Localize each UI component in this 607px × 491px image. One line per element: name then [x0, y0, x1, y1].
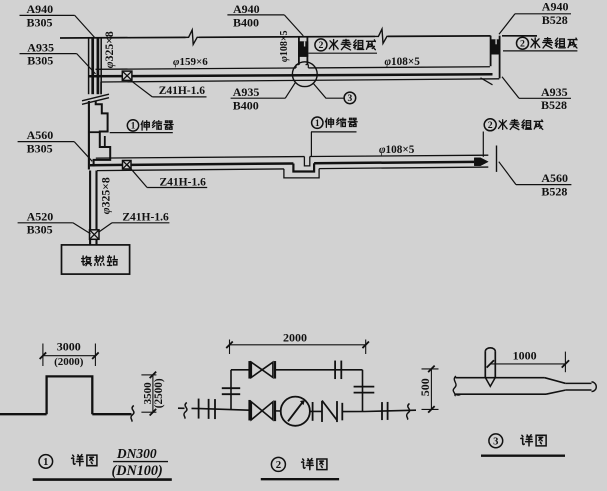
svg-text:3500: 3500 [142, 382, 154, 405]
svg-text:A940: A940 [27, 2, 54, 16]
svg-text:B305: B305 [27, 223, 53, 237]
svg-text:Z41H-1.6: Z41H-1.6 [159, 85, 206, 97]
svg-text:1: 1 [43, 457, 48, 468]
svg-text:B528: B528 [542, 13, 568, 27]
svg-text:A940: A940 [542, 0, 569, 14]
svg-text:(2000): (2000) [54, 356, 84, 368]
svg-text:(DN100): (DN100) [112, 463, 163, 479]
svg-text:A935: A935 [541, 85, 568, 99]
svg-text:B400: B400 [233, 98, 259, 112]
svg-text:2000: 2000 [283, 330, 307, 344]
svg-text:Z41H-1.6: Z41H-1.6 [160, 176, 207, 188]
svg-text:A940: A940 [233, 2, 260, 16]
svg-text:A520: A520 [27, 209, 54, 223]
svg-text:3: 3 [493, 436, 498, 447]
svg-text:B305: B305 [27, 16, 53, 30]
svg-text:B528: B528 [541, 185, 567, 199]
svg-text:A935: A935 [233, 85, 260, 99]
svg-text:1: 1 [131, 121, 136, 131]
svg-text:Z41H-1.6: Z41H-1.6 [122, 211, 169, 223]
svg-text:φ159×6: φ159×6 [173, 56, 208, 68]
svg-text:B305: B305 [27, 142, 53, 156]
svg-text:A935: A935 [27, 40, 54, 54]
svg-text:3000: 3000 [57, 340, 81, 354]
svg-text:B400: B400 [233, 15, 259, 29]
svg-text:φ325×8: φ325×8 [103, 31, 116, 68]
svg-text:B528: B528 [541, 98, 567, 112]
svg-text:(2500): (2500) [153, 378, 165, 408]
svg-text:A560: A560 [27, 128, 54, 142]
svg-text:500: 500 [418, 378, 432, 396]
svg-text:φ108×5: φ108×5 [279, 30, 290, 62]
svg-text:DN300: DN300 [116, 446, 157, 461]
svg-text:1: 1 [315, 118, 320, 128]
svg-text:1000: 1000 [513, 349, 537, 363]
svg-text:φ325×8: φ325×8 [99, 177, 112, 214]
svg-text:B305: B305 [27, 54, 53, 68]
svg-text:φ108×5: φ108×5 [385, 56, 421, 68]
svg-text:2: 2 [318, 40, 323, 51]
svg-text:2: 2 [520, 39, 525, 50]
svg-text:3: 3 [348, 94, 353, 104]
svg-text:2: 2 [488, 120, 493, 131]
svg-text:A560: A560 [541, 171, 568, 185]
svg-text:2: 2 [276, 459, 281, 471]
svg-text:φ108×5: φ108×5 [379, 144, 415, 156]
